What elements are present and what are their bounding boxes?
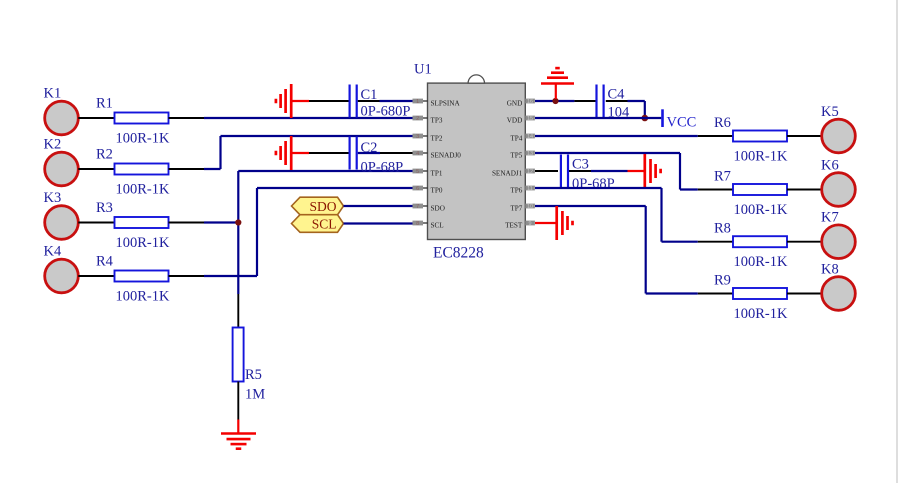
svg-text:100R-1K: 100R-1K — [734, 306, 789, 322]
svg-text:K3: K3 — [44, 190, 62, 206]
svg-text:13: 13 — [527, 151, 533, 157]
svg-text:TP3: TP3 — [431, 117, 443, 125]
svg-text:R8: R8 — [714, 221, 731, 237]
svg-text:100R-1K: 100R-1K — [734, 254, 789, 270]
svg-text:K1: K1 — [44, 86, 62, 102]
svg-text:SDO: SDO — [431, 205, 445, 213]
svg-text:100R-1K: 100R-1K — [116, 131, 171, 147]
svg-text:7: 7 — [416, 204, 419, 210]
svg-text:0P-68P: 0P-68P — [361, 160, 404, 176]
svg-text:TP5: TP5 — [510, 152, 522, 160]
svg-text:11: 11 — [527, 186, 533, 192]
svg-text:K6: K6 — [821, 158, 839, 174]
svg-text:100R-1K: 100R-1K — [116, 182, 171, 198]
svg-text:K5: K5 — [821, 104, 839, 120]
svg-text:2: 2 — [416, 116, 419, 122]
svg-text:100R-1K: 100R-1K — [734, 202, 789, 218]
svg-text:R9: R9 — [714, 272, 731, 288]
svg-text:8: 8 — [416, 221, 419, 227]
svg-text:TP6: TP6 — [510, 187, 522, 195]
svg-text:C3: C3 — [572, 157, 589, 173]
svg-text:100R-1K: 100R-1K — [734, 149, 789, 165]
svg-text:SENADJ0: SENADJ0 — [431, 152, 462, 160]
svg-text:TEST: TEST — [505, 222, 523, 230]
svg-text:0P-68P: 0P-68P — [572, 176, 615, 192]
svg-text:R5: R5 — [245, 367, 262, 383]
svg-text:9: 9 — [528, 221, 531, 227]
svg-text:R2: R2 — [96, 147, 113, 163]
svg-text:K4: K4 — [44, 244, 62, 260]
svg-text:TP4: TP4 — [510, 135, 522, 143]
svg-text:SENADJ1: SENADJ1 — [492, 170, 523, 178]
svg-text:C4: C4 — [608, 87, 626, 103]
svg-text:VCC: VCC — [667, 115, 697, 131]
svg-text:K7: K7 — [821, 210, 839, 226]
svg-text:TP2: TP2 — [431, 135, 443, 143]
svg-text:4: 4 — [416, 151, 419, 157]
svg-text:100R-1K: 100R-1K — [116, 289, 171, 305]
svg-text:10: 10 — [527, 204, 533, 210]
svg-text:100R-1K: 100R-1K — [116, 235, 171, 251]
svg-text:5: 5 — [416, 169, 419, 175]
svg-text:R1: R1 — [96, 96, 113, 112]
svg-text:1: 1 — [416, 99, 419, 105]
svg-text:GND: GND — [507, 100, 523, 108]
svg-text:R7: R7 — [714, 168, 731, 184]
svg-text:R4: R4 — [96, 254, 114, 270]
svg-text:0P-680P: 0P-680P — [361, 104, 411, 120]
svg-text:SCL: SCL — [312, 217, 337, 232]
svg-text:1M: 1M — [245, 387, 265, 403]
svg-text:EC8228: EC8228 — [433, 245, 484, 262]
svg-text:C1: C1 — [361, 87, 378, 103]
svg-text:U1: U1 — [414, 62, 432, 78]
svg-text:K2: K2 — [44, 137, 62, 153]
svg-text:R6: R6 — [714, 115, 731, 131]
svg-text:12: 12 — [527, 169, 533, 175]
svg-text:6: 6 — [416, 186, 419, 192]
svg-text:K8: K8 — [821, 262, 839, 278]
svg-text:16: 16 — [527, 99, 533, 105]
svg-text:14: 14 — [527, 134, 533, 140]
svg-text:15: 15 — [527, 116, 533, 122]
svg-text:R3: R3 — [96, 200, 113, 216]
svg-text:SLPSINA: SLPSINA — [431, 100, 461, 108]
svg-text:TP1: TP1 — [431, 170, 443, 178]
svg-text:SCL: SCL — [431, 222, 444, 230]
svg-text:TP0: TP0 — [431, 187, 443, 195]
svg-text:3: 3 — [416, 134, 419, 140]
svg-text:C2: C2 — [361, 140, 378, 156]
svg-text:VDD: VDD — [507, 117, 523, 125]
svg-text:SDO: SDO — [309, 199, 336, 214]
svg-text:TP7: TP7 — [510, 205, 522, 213]
